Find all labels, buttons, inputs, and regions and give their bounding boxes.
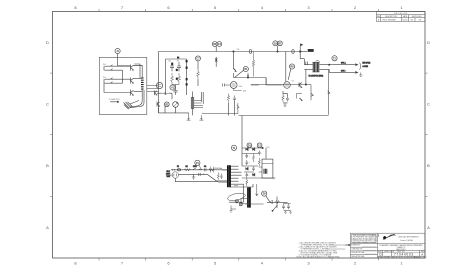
svg-text:CHECKED BY: CHECKED BY bbox=[352, 248, 364, 250]
wire bbox=[134, 65, 143, 100]
tube V1A bbox=[156, 82, 162, 88]
wire bundle bbox=[130, 64, 145, 108]
svg-text:D: D bbox=[46, 40, 49, 45]
resistor R5 bbox=[171, 73, 174, 85]
cap C31 bbox=[199, 173, 200, 176]
wire box bottom bbox=[259, 167, 262, 172]
lamp L1 bbox=[235, 200, 238, 203]
T1 secondary fan bbox=[231, 166, 244, 187]
zone letters right bbox=[427, 40, 430, 230]
svg-text:SHEET 1 OF 1: SHEET 1 OF 1 bbox=[416, 257, 427, 259]
fuse F3 bbox=[177, 169, 181, 171]
cap C50 bbox=[282, 204, 285, 210]
second choke T3 bbox=[248, 187, 251, 207]
right column rows bbox=[378, 244, 426, 256]
svg-text:T2 OUTPUT XFMR: T2 OUTPUT XFMR bbox=[309, 75, 324, 77]
bottom row bbox=[378, 256, 427, 259]
sheet frame bbox=[53, 12, 426, 259]
svg-text:DESCRIPTION: DESCRIPTION bbox=[385, 16, 397, 18]
fuse F2 on stem bbox=[215, 57, 217, 63]
chain1 wire bbox=[171, 169, 227, 171]
zone numbers top bbox=[74, 5, 403, 10]
svg-text:D: D bbox=[427, 40, 430, 45]
circled ref V1 bbox=[170, 85, 175, 90]
resistor R36 vert bbox=[217, 173, 219, 180]
cap C42 bbox=[246, 154, 249, 159]
switch diag bbox=[273, 205, 278, 211]
svg-text:NOTE: ALL VALUES SUBJECT TO C: NOTE: ALL VALUES SUBJECT TO CHANGE FMIC bbox=[297, 256, 341, 259]
svg-text:B: B bbox=[427, 163, 430, 168]
ground drop G2 bbox=[199, 115, 203, 120]
crossover hop bbox=[316, 61, 320, 62]
wire bbox=[300, 51, 307, 53]
cap C18 bbox=[233, 96, 236, 102]
svg-text:8-4-95: 8-4-95 bbox=[403, 20, 408, 22]
bump pair bbox=[198, 168, 202, 171]
cap C45 bbox=[252, 166, 255, 171]
svg-text:1W: 1W bbox=[237, 49, 240, 51]
ground bbox=[359, 73, 362, 77]
resistor R31 zig bbox=[209, 169, 215, 171]
svg-text:DRAWN BY: DRAWN BY bbox=[352, 244, 362, 247]
junction dot bbox=[247, 77, 248, 78]
svg-text:C25: C25 bbox=[243, 91, 246, 93]
diode D6 bbox=[270, 200, 273, 203]
junction dot bbox=[233, 51, 234, 52]
wire bbox=[229, 101, 235, 116]
svg-text:+: + bbox=[249, 155, 250, 157]
diode D2b bbox=[252, 173, 255, 176]
main wire y84.5 bbox=[251, 78, 311, 85]
notes block bbox=[297, 242, 341, 259]
diode D2a bbox=[252, 148, 255, 151]
logo texts bbox=[399, 236, 420, 243]
wire ext bbox=[244, 184, 254, 187]
junction bbox=[277, 51, 278, 52]
title lines bbox=[380, 244, 424, 251]
circled ref D1 bbox=[231, 145, 236, 150]
circled ref R2 bbox=[164, 102, 169, 107]
loop wire bbox=[228, 193, 246, 200]
plug drop wire bbox=[175, 178, 218, 181]
box corner tick bbox=[273, 178, 274, 179]
svg-text:INT SPKR: INT SPKR bbox=[363, 62, 372, 64]
T1 left leads bbox=[218, 170, 227, 182]
resistor R40 bbox=[276, 201, 280, 204]
wires from ladder bbox=[193, 92, 204, 116]
B+ rail bbox=[158, 51, 299, 53]
ground symbols bbox=[284, 211, 292, 214]
cap C30 bbox=[205, 168, 206, 171]
terminal marks bbox=[173, 169, 175, 171]
wire drop bbox=[233, 52, 235, 69]
svg-text:IN 1: IN 1 bbox=[103, 64, 106, 66]
svg-text:C: C bbox=[427, 102, 430, 107]
fold arrow bbox=[345, 244, 350, 246]
resistor R26 blob bbox=[300, 98, 303, 101]
left column rows bbox=[351, 244, 378, 255]
inner ladder strings bbox=[166, 59, 187, 95]
wire bbox=[172, 85, 179, 91]
junction bbox=[299, 51, 301, 53]
bias corner w arrow bbox=[311, 85, 313, 101]
cap C3 bbox=[170, 62, 174, 71]
bottom chain wire bbox=[267, 201, 288, 203]
transistor Q2 bbox=[131, 78, 134, 84]
wire into OT bbox=[300, 52, 313, 70]
svg-text:B: B bbox=[46, 163, 49, 168]
output transformer T2 bbox=[313, 62, 319, 72]
vertical bbox=[276, 197, 278, 209]
AC plug bbox=[172, 172, 178, 178]
cap C17 bbox=[222, 84, 230, 87]
svg-text:Corona, CA USA: Corona, CA USA bbox=[400, 239, 414, 242]
bus wire bbox=[158, 107, 188, 113]
circled ref C9 bbox=[196, 56, 201, 61]
cap C5 bbox=[174, 91, 178, 95]
junction bbox=[329, 64, 330, 65]
stem bbox=[215, 46, 217, 51]
svg-text:F1: F1 bbox=[177, 166, 179, 168]
small box bbox=[241, 198, 249, 203]
interbox wires bbox=[147, 86, 159, 92]
transistor Q3 bbox=[131, 90, 134, 96]
svg-text:TO MAIN PCB: TO MAIN PCB bbox=[109, 98, 121, 101]
ground cathode bbox=[283, 103, 286, 107]
svg-text:IN 2: IN 2 bbox=[103, 77, 106, 79]
circled ref CR2 bbox=[212, 42, 217, 47]
svg-text:C: C bbox=[46, 102, 49, 107]
feedback loop bottom bbox=[239, 69, 330, 115]
stem bbox=[277, 46, 279, 52]
svg-text:+: + bbox=[261, 152, 262, 154]
ground drop G1 bbox=[187, 113, 191, 121]
circled ref V2 bbox=[289, 64, 294, 69]
cap C33 bbox=[220, 174, 223, 180]
bump pair2 bbox=[203, 173, 205, 176]
vertical pair bbox=[201, 92, 203, 104]
connector J1 circle bbox=[115, 48, 120, 53]
cap C16 polarized bbox=[247, 73, 249, 77]
wire bbox=[111, 66, 131, 83]
wire bbox=[117, 54, 119, 66]
wire corner bbox=[251, 78, 283, 86]
wire up to OT bbox=[305, 69, 307, 84]
svg-text:4 OHM: 4 OHM bbox=[363, 66, 369, 68]
diode D4 on rail bbox=[249, 50, 251, 54]
circled ref R21 bbox=[243, 66, 248, 71]
input stage enclosure bbox=[99, 57, 147, 114]
circled ref R14 bbox=[278, 41, 283, 46]
resistor R30 zig bbox=[184, 169, 190, 171]
wire bbox=[197, 61, 199, 69]
choke hatch inside bbox=[264, 169, 267, 174]
heater bumps bbox=[234, 184, 238, 187]
svg-text:R E V I S I O N S: R E V I S I O N S bbox=[394, 13, 408, 15]
cathode resistor R27 bbox=[282, 94, 284, 103]
svg-text:WRITTEN CONSENT OF FMIC: WRITTEN CONSENT OF FMIC bbox=[353, 242, 378, 244]
svg-text:120V 60Hz: 120V 60Hz bbox=[214, 168, 223, 170]
circled ref VR2 bbox=[262, 191, 267, 196]
svg-text:DATE 8-4-95: DATE 8-4-95 bbox=[391, 256, 401, 259]
svg-text:APPROVED: APPROVED bbox=[412, 15, 422, 18]
bracket bbox=[360, 63, 361, 70]
diagonal wire bbox=[207, 174, 227, 181]
ground L bbox=[230, 209, 233, 212]
lamp L2 bbox=[239, 203, 242, 206]
svg-text:ENG APPROVAL: ENG APPROVAL bbox=[352, 251, 365, 254]
svg-text:SW1: SW1 bbox=[193, 166, 197, 168]
wire bbox=[104, 65, 142, 92]
svg-text:A: A bbox=[427, 225, 430, 230]
ground mid dark bbox=[192, 174, 195, 179]
switch S1 bbox=[193, 168, 198, 170]
title block bbox=[351, 233, 426, 258]
left edge wire bbox=[157, 52, 159, 113]
bus to NFB bbox=[202, 103, 239, 113]
svg-text:SPK +: SPK + bbox=[341, 63, 346, 65]
resistor R24 vertical bbox=[252, 52, 254, 77]
cap C4 bbox=[177, 62, 181, 71]
cable squiggle bbox=[124, 102, 133, 109]
circled ref P1 bbox=[195, 160, 200, 165]
svg-text:MFG APPROVAL: MFG APPROVAL bbox=[352, 255, 365, 258]
triode V2A bbox=[230, 82, 237, 89]
diode D5 on rail bbox=[292, 50, 294, 54]
vertical from T1 bbox=[229, 184, 244, 202]
disclaimer box bbox=[352, 234, 376, 242]
wire bbox=[118, 66, 131, 83]
small parts mid bbox=[211, 167, 214, 173]
svg-text:SCALE NONE: SCALE NONE bbox=[378, 256, 390, 259]
wire y77.5 bbox=[233, 73, 266, 78]
svg-text:A: A bbox=[46, 225, 49, 230]
small box corner bbox=[296, 94, 302, 99]
zone ticks top bbox=[50, 9, 428, 261]
wire bbox=[231, 206, 236, 210]
regulator box bbox=[262, 159, 273, 178]
transistor Q10 bbox=[155, 91, 157, 96]
cap C44 bbox=[246, 173, 249, 178]
wire bbox=[283, 91, 288, 103]
resistor R6 bbox=[178, 73, 181, 85]
resistor ladder bbox=[141, 78, 144, 89]
wire bbox=[157, 93, 172, 99]
resistor R35 bbox=[258, 158, 260, 166]
svg-text:MUSICAL INSTRUMENTS: MUSICAL INSTRUMENTS bbox=[399, 236, 420, 239]
junction bbox=[262, 147, 263, 148]
svg-text:SPK −: SPK − bbox=[341, 70, 346, 72]
svg-text:C1: C1 bbox=[204, 166, 206, 168]
circled ref C12 bbox=[217, 42, 222, 47]
wire diag bbox=[235, 70, 244, 77]
wire to right cluster bbox=[245, 204, 264, 208]
svg-text:PROD. RELEASE: PROD. RELEASE bbox=[382, 19, 396, 22]
resistor R11 bbox=[162, 92, 169, 94]
resistor R22 bbox=[227, 94, 229, 103]
wire bbox=[197, 79, 199, 86]
cap C46 bbox=[258, 151, 261, 156]
component ladder strip bbox=[191, 98, 194, 108]
power flag bbox=[300, 44, 302, 52]
diode D1a bbox=[246, 148, 249, 151]
circled ref T2 bbox=[332, 56, 337, 61]
wire drop x285.8 bbox=[285, 52, 287, 82]
transistor Q8 bbox=[234, 68, 237, 71]
power transformer T1 bbox=[228, 165, 231, 187]
cap C51 bbox=[287, 204, 290, 210]
stem bbox=[199, 165, 201, 170]
wires to speaker bbox=[320, 65, 333, 73]
svg-text:V3: V3 bbox=[292, 81, 294, 83]
svg-text:A: A bbox=[421, 253, 423, 257]
chain2 wire bbox=[179, 173, 208, 175]
svg-text:+: + bbox=[249, 162, 250, 164]
revision table bbox=[377, 12, 426, 22]
svg-text:77044003: 77044003 bbox=[394, 253, 414, 257]
jack IN1 bbox=[104, 65, 113, 71]
svg-text:R1: R1 bbox=[186, 166, 188, 168]
dwg row bbox=[378, 250, 425, 253]
drop arrow bbox=[255, 184, 258, 196]
resistor R34 bbox=[246, 178, 248, 186]
svg-text:WHT: WHT bbox=[167, 176, 171, 178]
svg-text:+: + bbox=[249, 174, 250, 176]
spkr arrows bbox=[332, 64, 358, 74]
zone numbers bottom bbox=[74, 261, 403, 266]
cap C22 bbox=[306, 61, 308, 64]
jack IN2 bbox=[104, 78, 113, 84]
resistor R33 bbox=[253, 154, 255, 162]
junction bbox=[305, 84, 306, 85]
pot VR1 bbox=[173, 102, 179, 108]
wires bridge bbox=[242, 116, 276, 179]
transistor Q9 bbox=[299, 83, 302, 88]
tube V2B bbox=[284, 82, 291, 89]
dark chips bbox=[171, 57, 187, 86]
box divider bbox=[262, 163, 273, 165]
circled ref C41 bbox=[257, 143, 262, 148]
disclaimer text bbox=[353, 234, 378, 244]
transistor Q4 bbox=[157, 102, 160, 107]
circled ref C14 bbox=[273, 41, 278, 46]
fuse label F1 bbox=[308, 49, 314, 52]
zone letters left bbox=[46, 40, 49, 230]
resistor R10 bbox=[197, 69, 200, 79]
cap C43 bbox=[246, 160, 249, 165]
transistor Q1 bbox=[131, 65, 134, 71]
stem bbox=[266, 196, 270, 202]
wire +V drop bbox=[265, 148, 267, 159]
stem bbox=[288, 69, 291, 80]
diode D1b bbox=[246, 167, 249, 170]
cathode cap C21 bbox=[286, 97, 289, 102]
fender logo squiggle bbox=[383, 236, 386, 239]
circled ref C40 bbox=[247, 143, 252, 148]
wire bbox=[284, 204, 291, 211]
left column labels bbox=[352, 244, 365, 258]
